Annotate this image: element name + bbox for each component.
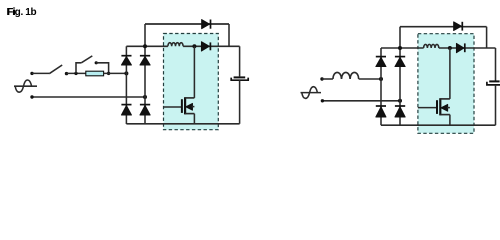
wire: resistor to bridge bbox=[104, 72, 127, 74]
wire: bypass right drop bbox=[486, 27, 488, 48]
diode D10 (bridge bottom-right) bbox=[395, 106, 405, 117]
junction node: bridge left midpoint bbox=[379, 77, 383, 81]
junction node left of resistor bbox=[74, 72, 77, 75]
source stub bbox=[185, 113, 194, 115]
drain stub bbox=[440, 98, 450, 100]
junction node: rail / bypass tap bbox=[398, 46, 402, 50]
wire: bridge right branch + bypass riser bbox=[144, 24, 146, 124]
switch S2 blade (bypass, open) bbox=[81, 56, 92, 63]
body arrow bbox=[441, 104, 448, 111]
C1 top plate bbox=[234, 76, 246, 78]
resistor R1 (inrush limiter) bbox=[86, 71, 104, 76]
junction node: bridge right midpoint bbox=[143, 95, 147, 99]
wire: top input to switch S1 bbox=[32, 72, 49, 74]
node: bottom input terminal bbox=[321, 99, 324, 102]
node: switch S2 contact bbox=[95, 61, 98, 64]
wire: bottom input line bbox=[322, 100, 400, 102]
junction node: MOSFET drain tap bbox=[448, 46, 452, 50]
diode D7 (bridge top-left) bbox=[376, 57, 386, 67]
body stub bbox=[192, 106, 195, 108]
wire: S1 contact to junction bbox=[67, 72, 86, 74]
wire: bridge left branch bbox=[125, 46, 127, 124]
wire: rail drop to C2 bbox=[495, 48, 497, 81]
gate wire bbox=[164, 106, 182, 108]
wire: rail (inductor to diode to output corner) bbox=[183, 45, 240, 47]
diode D6 (bypass diode) bbox=[202, 20, 211, 29]
diode D1 (bridge top-left) bbox=[121, 56, 131, 65]
capacitor C2 (output) bbox=[487, 48, 500, 125]
drain wire bbox=[193, 46, 195, 98]
C1 bottom plate (bracket) bbox=[231, 78, 248, 81]
diode D11 (boost diode) bbox=[456, 43, 464, 52]
wire: bridge left branch bbox=[380, 48, 382, 125]
wire: bypass right drop bbox=[228, 24, 230, 46]
diode D3 (bridge bottom-left) bbox=[121, 105, 131, 115]
body arrow bbox=[186, 103, 193, 110]
gate bar bbox=[181, 99, 183, 113]
junction node right of resistor bbox=[107, 72, 110, 75]
C2 top plate bbox=[489, 80, 499, 82]
wire: top bypass line bbox=[400, 26, 487, 28]
MOSFET Q2 bbox=[418, 48, 450, 125]
diode D12 (bypass diode) bbox=[454, 22, 463, 31]
inductor L2 (input choke) bbox=[333, 72, 359, 79]
junction node: rail / bypass tap bbox=[143, 44, 147, 48]
node: bottom input terminal bbox=[30, 95, 33, 98]
gate wire bbox=[418, 107, 436, 109]
wire: C2 to bottom rail bbox=[495, 85, 497, 125]
node: top input terminal bbox=[320, 77, 323, 80]
channel bar bbox=[439, 98, 441, 115]
wire: bottom rail bbox=[381, 124, 496, 126]
wire: bypass branch top right and drop bbox=[96, 63, 108, 74]
node: switch S1 contact bbox=[65, 72, 68, 75]
wire: top bypass line bbox=[145, 23, 229, 25]
module box (boost converter, dashed cyan) bbox=[418, 34, 474, 134]
junction node: bridge left midpoint bbox=[124, 71, 128, 75]
wire: C1 to bottom rail bbox=[239, 80, 241, 124]
inductor L1 (boost) bbox=[168, 43, 183, 47]
node: top input terminal bbox=[30, 72, 33, 75]
diode D8 (bridge top-right) bbox=[395, 57, 405, 67]
wire: bypass branch riser left bbox=[76, 63, 81, 74]
wire: output drop to C1 bbox=[239, 46, 241, 76]
junction node: MOSFET drain tap bbox=[192, 44, 196, 48]
diode D5 (boost diode) bbox=[201, 42, 210, 51]
switch S1 blade (open) bbox=[49, 65, 62, 74]
wire: bridge right branch + bypass riser bbox=[399, 27, 401, 126]
body stub bbox=[447, 107, 450, 109]
drain stub bbox=[185, 97, 194, 99]
wire: bottom rail bbox=[126, 123, 239, 125]
drain wire bbox=[449, 48, 451, 99]
wire: bottom input line bbox=[32, 96, 145, 98]
source wire bbox=[449, 115, 451, 126]
source wire bbox=[193, 114, 195, 124]
figure caption Fig. 1b bbox=[7, 7, 37, 18]
wire: positive rail (bridge to inductor) bbox=[126, 45, 167, 47]
junction node: bridge right midpoint bbox=[398, 99, 402, 103]
MOSFET Q1 bbox=[164, 46, 195, 124]
wire: rail (inductor to diode to cap corner) bbox=[439, 47, 496, 49]
source stub bbox=[440, 114, 450, 116]
C2 bottom plate (bracket) bbox=[487, 82, 500, 85]
gate bar bbox=[436, 100, 438, 114]
module box (boost converter, dashed cyan) bbox=[164, 34, 219, 130]
capacitor C1 (output) bbox=[231, 46, 248, 124]
AC source V1 bbox=[14, 80, 37, 92]
channel bar bbox=[184, 97, 186, 114]
wire: terminal to inductor L2 bbox=[322, 78, 333, 80]
wire: positive rail (bridge to inductor) bbox=[381, 47, 424, 49]
AC source V2 bbox=[301, 87, 322, 99]
diode D9 (bridge bottom-left) bbox=[376, 106, 386, 117]
wire: inductor to bridge bbox=[359, 78, 381, 80]
diode D2 (bridge top-right) bbox=[140, 56, 150, 65]
inductor L3 (boost) bbox=[424, 44, 439, 48]
diode D4 (bridge bottom-right) bbox=[140, 105, 150, 115]
